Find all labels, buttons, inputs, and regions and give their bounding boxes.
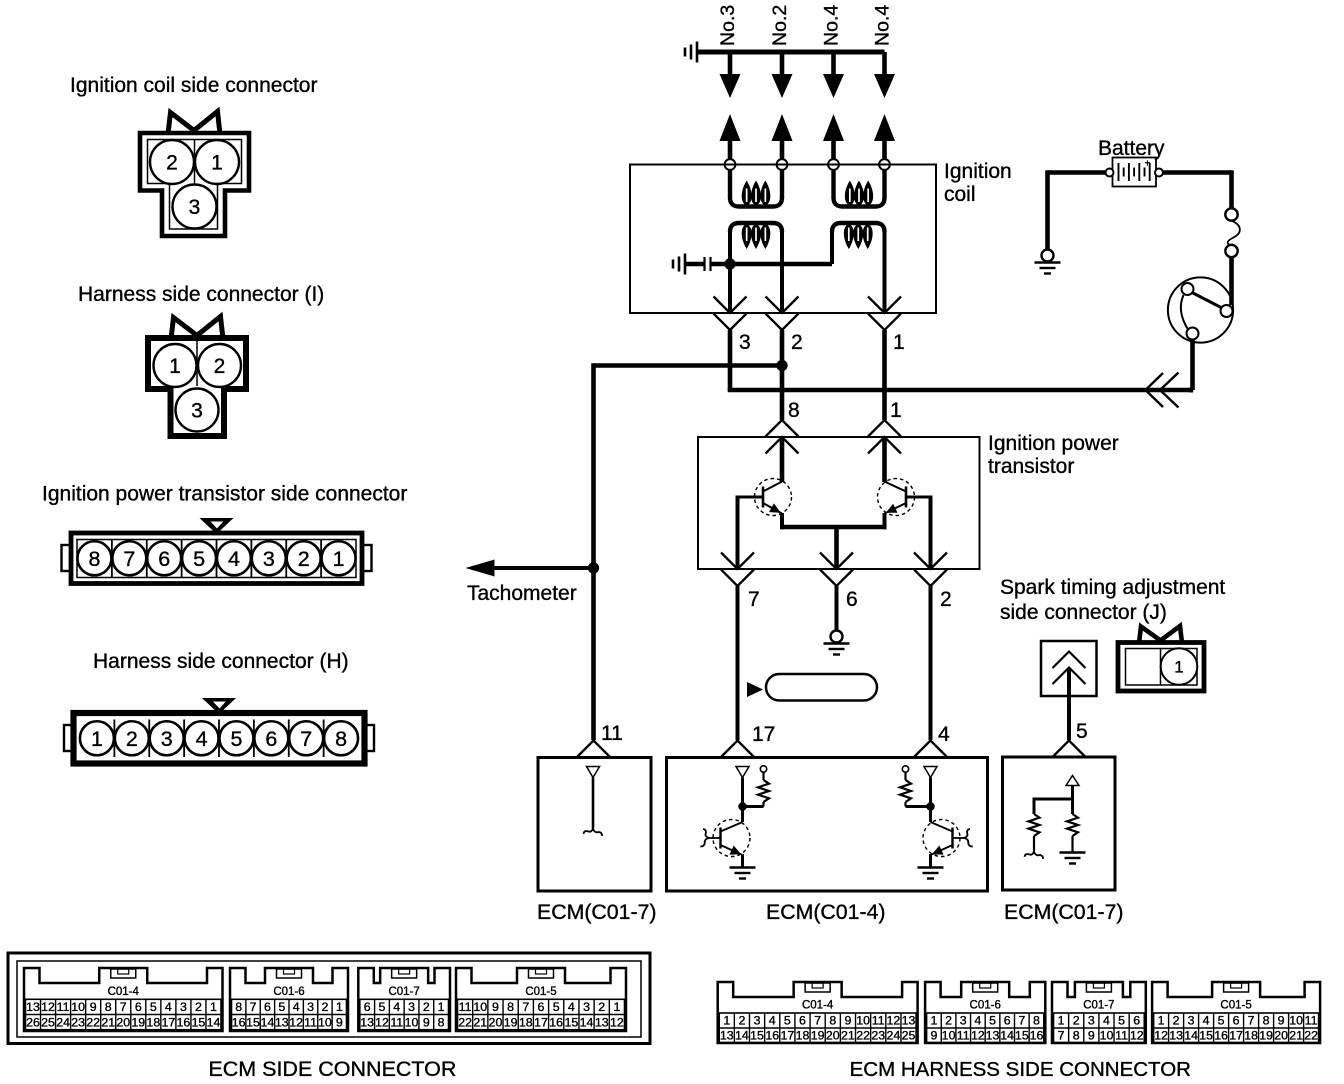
svg-text:3: 3	[754, 1014, 761, 1028]
spark timing adjustment terminal box	[1041, 641, 1097, 696]
svg-text:4: 4	[393, 1000, 400, 1014]
wire collector Q2	[882, 437, 887, 482]
svg-text:3: 3	[1188, 1014, 1195, 1028]
wire emitter Q2	[883, 513, 887, 529]
svg-text:21: 21	[1289, 1028, 1303, 1042]
svg-text:15: 15	[750, 1028, 764, 1042]
svg-text:13: 13	[360, 1015, 374, 1029]
connector C01-7	[1052, 982, 1146, 1043]
svg-text:4: 4	[1203, 1014, 1210, 1028]
wire to pin 6	[834, 527, 839, 569]
svg-text:ECM(C01-4): ECM(C01-4)	[766, 900, 886, 924]
svg-text:16: 16	[549, 1015, 563, 1029]
svg-text:20: 20	[826, 1028, 840, 1042]
fusible link terminal top	[1225, 208, 1237, 220]
svg-text:4: 4	[196, 727, 208, 751]
svg-text:No.4: No.4	[872, 5, 894, 46]
svg-text:3: 3	[161, 727, 173, 751]
svg-text:17: 17	[752, 723, 775, 746]
svg-text:side connector (J): side connector (J)	[1000, 601, 1167, 624]
svg-text:6: 6	[846, 588, 858, 611]
transistor Q1	[755, 479, 792, 516]
base stub Q4	[953, 837, 965, 839]
svg-text:21: 21	[473, 1015, 487, 1029]
wire emitter Q4 to ground	[929, 854, 932, 867]
svg-text:25: 25	[902, 1028, 916, 1042]
svg-text:12: 12	[886, 1014, 900, 1028]
wire pin 17 to Q3 collector	[741, 778, 744, 823]
svg-text:3: 3	[189, 196, 201, 219]
primary winding T2 (right)	[832, 223, 885, 232]
wire stub pin 11	[592, 778, 595, 829]
wire pin 3 down	[728, 330, 733, 390]
wire emitter Q3 to ground	[741, 854, 744, 867]
svg-text:20: 20	[489, 1015, 503, 1029]
svg-text:7: 7	[120, 1000, 127, 1014]
svg-text:1: 1	[1174, 658, 1183, 677]
svg-text:12: 12	[1154, 1028, 1168, 1042]
svg-text:17: 17	[161, 1015, 175, 1029]
inline connector marker (double chevron)	[1160, 373, 1179, 408]
svg-text:13: 13	[986, 1028, 1000, 1042]
arrow to spark plug No.2	[772, 74, 793, 98]
arrow to spark plug No.4	[874, 74, 895, 98]
svg-text:Ignition power transistor side: Ignition power transistor side connector	[42, 483, 407, 506]
coil connector pin 2	[766, 297, 799, 314]
wire battery negative	[1048, 170, 1106, 175]
wire to ECM pin 5	[1067, 668, 1071, 740]
svg-text:3: 3	[180, 1000, 187, 1014]
svg-text:14: 14	[1000, 1028, 1014, 1042]
svg-text:Tachometer: Tachometer	[467, 582, 577, 605]
wire pin 7 to ECM pin 17	[736, 586, 740, 740]
resistor R4	[1067, 814, 1078, 836]
svg-text:6: 6	[158, 547, 170, 571]
svg-text:7: 7	[300, 727, 312, 751]
arrow from coil tower 2	[772, 114, 793, 141]
svg-text:9: 9	[90, 1000, 97, 1014]
svg-text:15: 15	[1015, 1028, 1029, 1042]
svg-text:Spark timing adjustment: Spark timing adjustment	[1000, 576, 1225, 599]
svg-text:13: 13	[26, 1000, 40, 1014]
svg-text:23: 23	[871, 1028, 885, 1042]
svg-text:18: 18	[1244, 1028, 1258, 1042]
svg-text:9: 9	[930, 1028, 937, 1042]
svg-text:coil: coil	[944, 183, 976, 206]
resistor R1	[762, 772, 764, 780]
svg-text:12: 12	[375, 1015, 389, 1029]
svg-text:18: 18	[796, 1028, 810, 1042]
svg-text:1: 1	[890, 399, 902, 422]
svg-text:Ignition: Ignition	[944, 160, 1012, 183]
primary winding T1 (left)	[730, 223, 782, 232]
svg-text:2: 2	[598, 1000, 605, 1014]
svg-text:5: 5	[1218, 1014, 1225, 1028]
svg-text:9: 9	[1278, 1014, 1285, 1028]
ECM pin 11 entry	[577, 741, 610, 758]
svg-text:5: 5	[193, 547, 205, 571]
wire fusible link to ignition switch	[1229, 257, 1234, 305]
wire base Q2 to pin 2	[906, 496, 931, 499]
wire ignition switch output	[1190, 340, 1195, 391]
svg-text:11: 11	[957, 1028, 970, 1042]
triangle terminal pin 4	[924, 767, 937, 778]
svg-text:8: 8	[829, 1014, 836, 1028]
up triangle terminal pin 5	[1066, 776, 1079, 786]
svg-text:7: 7	[748, 588, 760, 611]
resistor R3	[1029, 814, 1040, 836]
svg-text:C01-7: C01-7	[388, 986, 419, 998]
junction tachometer takeoff	[588, 562, 599, 573]
svg-text:16: 16	[177, 1015, 191, 1029]
svg-text:12: 12	[1130, 1028, 1144, 1042]
junction on pin 2 wire	[776, 360, 787, 371]
svg-text:transistor: transistor	[988, 455, 1074, 478]
svg-text:2: 2	[945, 1014, 952, 1028]
svg-text:22: 22	[86, 1015, 100, 1029]
svg-text:1: 1	[723, 1014, 730, 1028]
svg-text:22: 22	[458, 1015, 472, 1029]
battery B1	[1113, 158, 1157, 187]
svg-text:6: 6	[1004, 1014, 1011, 1028]
svg-text:6: 6	[538, 1000, 545, 1014]
transistor Q4	[923, 820, 960, 857]
wire emitter Q1	[780, 513, 784, 529]
svg-text:7: 7	[123, 547, 135, 571]
wire base Q1 to pin 7	[738, 496, 764, 499]
svg-text:17: 17	[1229, 1028, 1243, 1042]
svg-text:1: 1	[1158, 1014, 1165, 1028]
ECM(C01-7) box left	[538, 758, 651, 892]
svg-text:2: 2	[791, 331, 803, 354]
svg-text:5: 5	[150, 1000, 157, 1014]
svg-text:5: 5	[553, 1000, 560, 1014]
secondary winding T1 (left)	[728, 170, 732, 198]
svg-text:Ignition power: Ignition power	[988, 432, 1119, 455]
wire pin 2 to ECM pin 4	[929, 586, 933, 740]
ground G1 (spark plug return bus ground)	[696, 42, 699, 63]
svg-text:16: 16	[1214, 1028, 1228, 1042]
transistor connector pin 7 exit	[721, 553, 754, 570]
open end squiggle	[1025, 851, 1034, 857]
svg-text:10: 10	[71, 1000, 85, 1014]
wire pin 6 to ground	[835, 586, 839, 631]
svg-text:14: 14	[1184, 1028, 1198, 1042]
svg-text:3: 3	[263, 547, 275, 571]
pictogram Harness side connector (H)	[202, 698, 236, 714]
wire collector Q1	[780, 437, 785, 482]
transistor Q2	[878, 479, 915, 516]
svg-text:14: 14	[735, 1028, 749, 1042]
svg-text:9: 9	[423, 1015, 430, 1029]
svg-text:14: 14	[207, 1015, 221, 1029]
ground G3	[824, 642, 850, 644]
svg-text:16: 16	[1030, 1028, 1044, 1042]
svg-text:6: 6	[799, 1014, 806, 1028]
svg-text:7: 7	[1058, 1028, 1065, 1042]
connector C01-5	[1152, 982, 1320, 1043]
triangle terminal pin 17	[736, 767, 749, 778]
svg-text:5: 5	[1118, 1014, 1125, 1028]
svg-text:1: 1	[930, 1014, 937, 1028]
svg-text:1: 1	[613, 1000, 620, 1014]
svg-text:19: 19	[504, 1015, 518, 1029]
svg-text:10: 10	[1100, 1028, 1114, 1042]
svg-text:7: 7	[250, 1000, 257, 1014]
svg-text:13: 13	[720, 1028, 734, 1042]
ECM pin 17 entry	[721, 741, 754, 758]
wire spark output stem 2	[780, 52, 785, 80]
svg-text:24: 24	[56, 1015, 70, 1029]
arrow from coil tower 3	[823, 114, 844, 141]
svg-text:13: 13	[275, 1015, 289, 1029]
connector C01-6	[925, 982, 1045, 1043]
ground terminal circle	[831, 631, 843, 643]
terminal circle tower 4	[879, 159, 890, 170]
svg-text:19: 19	[131, 1015, 145, 1029]
fusible link	[1228, 221, 1240, 246]
svg-text:ECM SIDE CONNECTOR: ECM SIDE CONNECTOR	[208, 1057, 456, 1081]
battery ground terminal circle	[1042, 250, 1054, 262]
ECM(C01-4) box middle	[667, 758, 988, 892]
svg-text:1: 1	[1058, 1014, 1065, 1028]
svg-text:No.4: No.4	[821, 5, 843, 46]
svg-text:5: 5	[989, 1014, 996, 1028]
callout arrow	[747, 682, 763, 697]
svg-text:ECM(C01-7): ECM(C01-7)	[1004, 900, 1124, 924]
svg-text:7: 7	[1248, 1014, 1255, 1028]
arrow from coil tower 1	[720, 114, 741, 141]
svg-text:26: 26	[26, 1015, 40, 1029]
svg-text:8: 8	[1263, 1014, 1270, 1028]
svg-text:4: 4	[228, 547, 240, 571]
svg-text:3: 3	[739, 331, 751, 354]
svg-text:17: 17	[780, 1028, 794, 1042]
svg-text:5: 5	[278, 1000, 285, 1014]
connector C01-6	[230, 968, 348, 1031]
svg-text:2: 2	[126, 727, 138, 751]
svg-text:10: 10	[856, 1014, 870, 1028]
svg-text:12: 12	[289, 1015, 303, 1029]
triangle terminal pin 11	[587, 767, 600, 778]
svg-text:18: 18	[146, 1015, 160, 1029]
svg-text:16: 16	[232, 1015, 246, 1029]
svg-text:13: 13	[1169, 1028, 1183, 1042]
callout capsule	[766, 674, 877, 701]
harness side connector (I) pictogram	[171, 317, 223, 340]
svg-text:6: 6	[264, 1000, 271, 1014]
connector C01-4	[718, 982, 918, 1043]
svg-text:5: 5	[230, 727, 242, 751]
svg-text:19: 19	[1259, 1028, 1273, 1042]
transistor connector pin 2 exit	[914, 553, 947, 570]
svg-text:11: 11	[1305, 1014, 1318, 1028]
terminal circle tower 2	[777, 159, 788, 170]
svg-text:10: 10	[473, 1000, 487, 1014]
wire common emitter	[780, 525, 887, 530]
svg-text:C01-5: C01-5	[525, 986, 556, 998]
wire pin 2 down to transistor pin 8	[780, 330, 785, 420]
connector C01-7	[358, 968, 450, 1031]
svg-text:22: 22	[1304, 1028, 1318, 1042]
svg-text:20: 20	[1274, 1028, 1288, 1042]
ground G5	[918, 866, 944, 868]
wire resistor to collector node	[906, 805, 931, 808]
svg-text:12: 12	[41, 1000, 55, 1014]
svg-text:8: 8	[105, 1000, 112, 1014]
base stub Q3	[709, 837, 721, 839]
ground G6	[1060, 851, 1086, 853]
svg-text:1: 1	[333, 547, 345, 571]
arrow to spark plug No.4	[823, 74, 844, 98]
svg-text:ECM(C01-7): ECM(C01-7)	[537, 900, 657, 924]
connector C01-4	[24, 968, 223, 1031]
ECM(C01-7) box right	[1003, 757, 1116, 890]
svg-text:1: 1	[438, 1000, 445, 1014]
svg-text:11: 11	[459, 1000, 472, 1014]
svg-text:4: 4	[769, 1014, 776, 1028]
svg-text:7: 7	[1018, 1014, 1025, 1028]
ignition power transistor box	[698, 437, 980, 569]
svg-text:2: 2	[321, 1000, 328, 1014]
svg-text:5: 5	[379, 1000, 386, 1014]
svg-text:19: 19	[811, 1028, 825, 1042]
double chevron symbol	[1053, 652, 1086, 669]
svg-text:6: 6	[135, 1000, 142, 1014]
ignition coil box	[630, 165, 936, 314]
ECM pin 4 entry	[914, 741, 947, 758]
svg-text:16: 16	[765, 1028, 779, 1042]
svg-text:C01-6: C01-6	[273, 986, 304, 998]
wire spark plug bus	[697, 50, 885, 55]
svg-text:14: 14	[580, 1015, 594, 1029]
fusible link terminal bottom	[1225, 245, 1237, 257]
coil connector pin 1	[868, 297, 901, 314]
svg-text:C01-4: C01-4	[802, 1000, 834, 1012]
svg-text:8: 8	[788, 399, 800, 422]
svg-text:9: 9	[492, 1000, 499, 1014]
svg-text:4: 4	[293, 1000, 300, 1014]
svg-text:8: 8	[235, 1000, 242, 1014]
wire ignition feed horizontal	[728, 388, 1193, 393]
svg-text:9: 9	[336, 1015, 343, 1029]
resistor R2	[904, 772, 906, 780]
svg-text:2: 2	[423, 1000, 430, 1014]
svg-text:C01-4: C01-4	[108, 986, 140, 998]
svg-text:3: 3	[191, 400, 203, 423]
svg-text:4: 4	[974, 1014, 981, 1028]
svg-text:21: 21	[841, 1028, 855, 1042]
wire tachometer vertical to ECM pin 11	[591, 363, 596, 740]
svg-text:1: 1	[211, 152, 223, 175]
svg-text:1: 1	[91, 727, 103, 751]
svg-text:15: 15	[246, 1015, 260, 1029]
junction	[738, 802, 746, 810]
terminal circle tower 3	[828, 159, 839, 170]
connector C01-5	[456, 968, 626, 1031]
connector J pictogram	[1139, 626, 1182, 643]
transistor connector pin 8 entry	[766, 420, 799, 437]
ground G4	[730, 866, 756, 868]
junction	[926, 802, 934, 810]
ground G7	[1035, 261, 1061, 263]
arrow to spark plug No.3	[720, 74, 741, 98]
svg-text:2: 2	[940, 588, 952, 611]
svg-text:22: 22	[856, 1028, 870, 1042]
wire resistor to collector node	[743, 805, 764, 808]
svg-text:10: 10	[405, 1015, 419, 1029]
svg-text:21: 21	[101, 1015, 115, 1029]
svg-text:No.3: No.3	[717, 5, 739, 46]
svg-text:3: 3	[1088, 1014, 1095, 1028]
svg-text:2: 2	[166, 152, 178, 175]
wire pin 4 to Q4 collector	[929, 778, 932, 823]
svg-text:Harness side connector (I): Harness side connector (I)	[78, 283, 324, 306]
svg-text:ECM HARNESS SIDE CONNECTOR: ECM HARNESS SIDE CONNECTOR	[850, 1058, 1191, 1081]
ground G2 (coil internal ground)	[684, 254, 687, 275]
svg-text:11: 11	[1115, 1028, 1128, 1042]
svg-text:24: 24	[886, 1028, 900, 1042]
svg-text:2: 2	[195, 1000, 202, 1014]
battery terminal circles	[1106, 169, 1114, 177]
svg-text:13: 13	[902, 1014, 916, 1028]
arrow to tachometer	[466, 560, 495, 577]
svg-text:11: 11	[872, 1014, 885, 1028]
svg-text:3: 3	[960, 1014, 967, 1028]
svg-text:15: 15	[1199, 1028, 1213, 1042]
svg-text:1: 1	[336, 1000, 343, 1014]
svg-text:4: 4	[568, 1000, 575, 1014]
svg-text:3: 3	[583, 1000, 590, 1014]
wire spark output stem 4	[882, 52, 887, 80]
wire battery positive	[1163, 170, 1232, 175]
svg-text:15: 15	[564, 1015, 578, 1029]
svg-text:8: 8	[1033, 1014, 1040, 1028]
ignition coil side connector pictogram	[168, 112, 220, 135]
svg-text:6: 6	[1233, 1014, 1240, 1028]
svg-text:12: 12	[610, 1015, 624, 1029]
svg-text:20: 20	[116, 1015, 130, 1029]
ECM side connector table frame	[8, 953, 650, 1044]
secondary winding T2 (right)	[831, 170, 835, 198]
transistor connector pin 6 exit	[820, 553, 853, 570]
wire tachometer branch horizontal	[594, 363, 783, 368]
svg-text:2: 2	[298, 547, 310, 571]
svg-text:3: 3	[408, 1000, 415, 1014]
svg-text:11: 11	[304, 1015, 317, 1029]
svg-text:9: 9	[1088, 1028, 1095, 1042]
ignition switch SW1	[1168, 277, 1233, 342]
svg-text:9: 9	[844, 1014, 851, 1028]
svg-text:6: 6	[1133, 1014, 1140, 1028]
terminal circle tower 1	[725, 159, 736, 170]
svg-text:No.2: No.2	[769, 5, 791, 46]
transistor Q3	[713, 820, 750, 857]
inline connector break	[703, 257, 705, 271]
svg-text:5: 5	[1076, 720, 1088, 743]
svg-text:8: 8	[1073, 1028, 1080, 1042]
svg-text:6: 6	[364, 1000, 371, 1014]
svg-text:8: 8	[335, 727, 347, 751]
svg-text:7: 7	[522, 1000, 529, 1014]
svg-text:11: 11	[601, 722, 623, 745]
svg-text:10: 10	[942, 1028, 956, 1042]
wire spark output stem 1	[728, 52, 733, 80]
wire node A to pin 3	[728, 264, 732, 313]
svg-text:17: 17	[534, 1015, 548, 1029]
svg-text:2: 2	[1073, 1014, 1080, 1028]
svg-text:14: 14	[261, 1015, 275, 1029]
